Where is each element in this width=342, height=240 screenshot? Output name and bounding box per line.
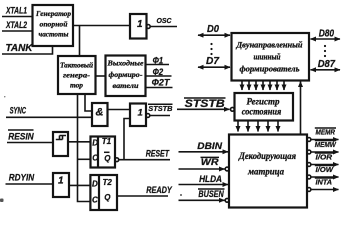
svg-text:формиро-: формиро- <box>109 70 144 79</box>
svg-text:XTAL1: XTAL1 <box>5 6 27 16</box>
svg-text:D: D <box>92 139 98 148</box>
svg-text:T2: T2 <box>103 178 113 187</box>
svg-text:OSC: OSC <box>157 16 173 25</box>
svg-text:MEMW: MEMW <box>315 140 337 149</box>
svg-text:Тактовый: Тактовый <box>60 61 93 70</box>
svg-text:STSTB: STSTB <box>148 104 173 113</box>
svg-text:матрица: матрица <box>247 167 284 177</box>
svg-text:Ф2: Ф2 <box>153 67 164 77</box>
svg-text:INTA: INTA <box>316 178 333 187</box>
svg-text:RESET: RESET <box>146 149 170 159</box>
svg-text:READY: READY <box>146 185 172 195</box>
svg-text:C: C <box>92 154 98 163</box>
svg-text:RESIN: RESIN <box>8 131 34 142</box>
svg-text:генера-: генера- <box>63 71 91 80</box>
svg-text:Ф2Т: Ф2Т <box>152 78 171 88</box>
svg-text:I/OW: I/OW <box>316 165 334 174</box>
svg-text:Декодирующая: Декодирующая <box>238 151 296 161</box>
svg-text:Выходные: Выходные <box>106 59 144 68</box>
svg-text:T1: T1 <box>102 137 112 146</box>
svg-text:Ф1: Ф1 <box>153 55 164 65</box>
svg-text:частоты: частоты <box>39 29 69 38</box>
svg-text:тор: тор <box>70 80 83 89</box>
svg-text:D7: D7 <box>206 56 219 67</box>
svg-text:C: C <box>92 195 98 204</box>
svg-text:TANK: TANK <box>6 43 34 54</box>
svg-text:ватели: ватели <box>113 81 139 90</box>
svg-text:D: D <box>92 180 98 189</box>
svg-text:STSTB: STSTB <box>185 98 225 110</box>
svg-text:D87: D87 <box>318 59 336 70</box>
svg-text:опорной: опорной <box>40 19 68 28</box>
svg-text:WR: WR <box>201 157 219 168</box>
svg-text:1: 1 <box>137 19 143 30</box>
svg-text:MEMR: MEMR <box>316 128 336 137</box>
svg-text:1: 1 <box>58 176 64 187</box>
svg-text:шинный: шинный <box>254 53 281 62</box>
svg-text:формирователь: формирователь <box>240 65 300 74</box>
svg-text:&: & <box>96 107 104 119</box>
svg-text:HLDA: HLDA <box>199 174 222 185</box>
svg-text:I/OR: I/OR <box>316 153 333 162</box>
svg-text:Q: Q <box>104 154 111 163</box>
svg-text:RDYIN: RDYIN <box>9 172 35 183</box>
svg-text:Регистр: Регистр <box>247 97 280 107</box>
svg-text:D0: D0 <box>207 24 219 35</box>
svg-text:Генератор: Генератор <box>35 9 71 18</box>
svg-text:DBIN: DBIN <box>197 141 223 152</box>
svg-text:Q: Q <box>104 193 111 202</box>
svg-text:BUSEN: BUSEN <box>198 189 224 200</box>
svg-text:XTAL2: XTAL2 <box>5 20 27 30</box>
svg-text:1: 1 <box>138 108 143 119</box>
svg-text:SYNC: SYNC <box>10 105 27 115</box>
svg-text:D80: D80 <box>319 28 335 39</box>
svg-text:состояния: состояния <box>242 106 282 116</box>
svg-text:Двунаправленный: Двунаправленный <box>235 41 303 50</box>
